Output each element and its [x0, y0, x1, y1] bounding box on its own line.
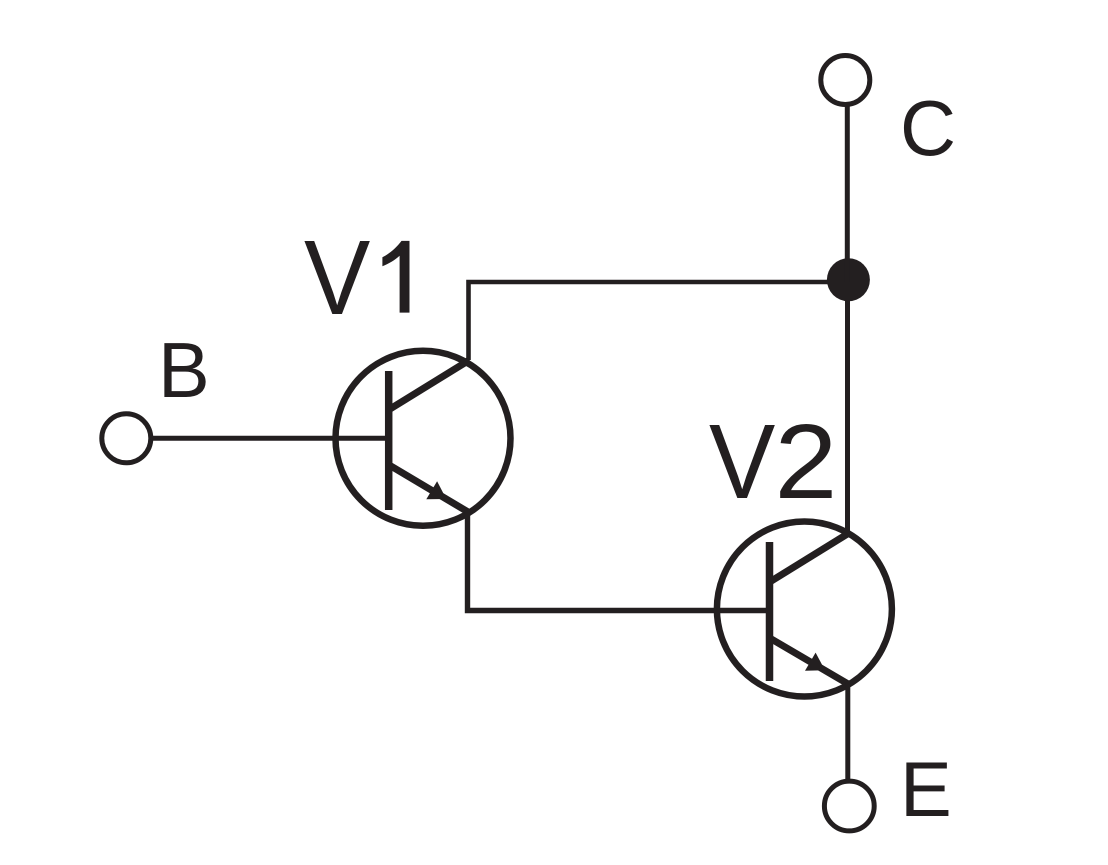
terminal E — [824, 781, 874, 831]
V2 emitter arrow — [805, 653, 825, 671]
wire node to terminal C — [845, 105, 850, 282]
label V1 — [304, 219, 410, 337]
svg-text:2: 2 — [775, 403, 838, 521]
V1 collector stroke — [390, 360, 470, 409]
wire V1 collector to node C — [469, 282, 849, 360]
V1 base bar — [385, 371, 393, 510]
transistor V2 — [717, 522, 892, 697]
V1 emitter arrow — [426, 481, 446, 499]
V2 base bar — [766, 542, 774, 681]
svg-text:C: C — [900, 86, 956, 172]
svg-text:B: B — [158, 328, 210, 414]
V2 emitter stroke — [771, 639, 850, 685]
wire B to V1 base — [151, 436, 389, 441]
wire V1 emitter to V2 base — [468, 510, 769, 611]
transistor V1 — [336, 351, 511, 526]
svg-text:V: V — [709, 403, 775, 521]
V2 body circle — [717, 522, 892, 697]
svg-text:E: E — [900, 747, 952, 833]
V1 body circle — [336, 351, 511, 526]
wire V2 emitter to terminal E — [845, 683, 850, 781]
V1 emitter stroke — [390, 466, 470, 514]
svg-text:V: V — [304, 219, 370, 337]
wire node to V2 collector — [845, 299, 850, 536]
junction dot node C — [827, 258, 870, 301]
label V2 — [709, 403, 837, 521]
terminal C — [821, 56, 870, 105]
terminal B — [102, 414, 151, 463]
V2 collector stroke — [771, 533, 850, 582]
